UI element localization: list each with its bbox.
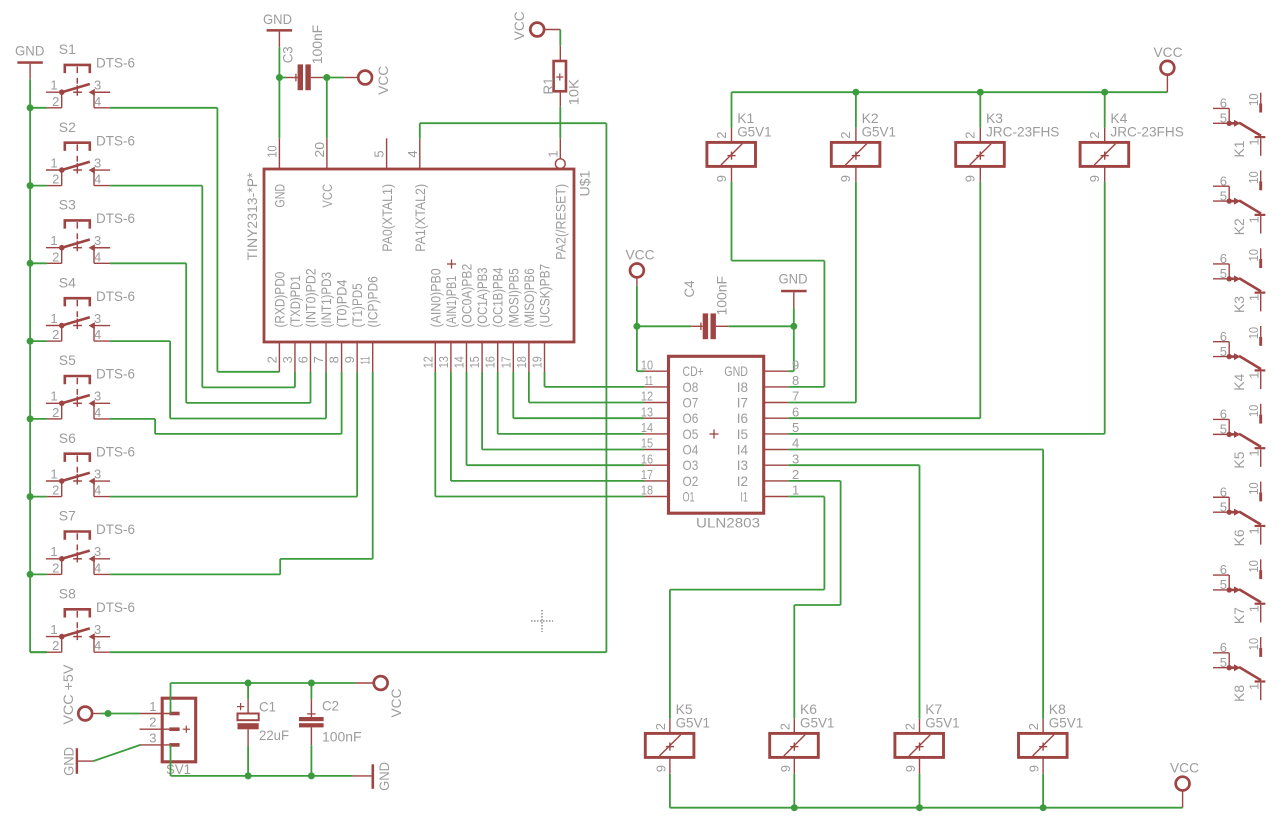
relay coil K2 (G5V1)	[831, 128, 880, 182]
wire ULN I2 to K6	[788, 481, 840, 719]
svg-text:2: 2	[903, 723, 918, 730]
ULN2803 right pin 5 I5	[737, 420, 800, 442]
ULN2803 right pin 9 GND	[724, 357, 799, 379]
svg-text:O3: O3	[683, 457, 699, 473]
wire GND to C3 node	[278, 47, 280, 77]
svg-text:VCC: VCC	[375, 66, 391, 95]
label DTS-6 value S1	[96, 55, 135, 71]
svg-text:DTS-6: DTS-6	[96, 132, 135, 148]
svg-text:9: 9	[714, 175, 729, 182]
junction bus-K7	[916, 804, 923, 811]
svg-text:GND: GND	[15, 43, 44, 59]
label DTS-6 value S2	[96, 132, 135, 148]
svg-text:1: 1	[545, 150, 560, 157]
switch S5 (DTS-6)	[46, 376, 110, 419]
label S6 refdes	[59, 430, 76, 446]
ULN2803 left pin 10 CD+	[641, 357, 704, 379]
svg-text:3: 3	[94, 155, 101, 170]
svg-text:G5V1: G5V1	[862, 124, 897, 140]
svg-text:ULN2803: ULN2803	[696, 515, 760, 531]
label K1 refdes (contact)	[1231, 140, 1247, 157]
wire C3 to VCC node	[322, 77, 344, 79]
label S8 refdes	[59, 585, 76, 601]
svg-text:8: 8	[792, 373, 799, 388]
ground symbol GND (switch rail)	[15, 43, 44, 80]
label K7 refdes	[925, 701, 942, 717]
capacitor C2 100nF	[299, 683, 324, 776]
svg-text:10: 10	[1246, 482, 1261, 495]
wire U$1 pin14 to ULN O3	[467, 372, 645, 465]
wire ULN I1 to K5	[670, 497, 825, 719]
svg-text:3: 3	[94, 544, 101, 559]
pin numbers S7	[50, 544, 101, 575]
label JRC-23FHS value K4	[1110, 124, 1183, 140]
junction C1 bottom	[245, 772, 252, 779]
pin numbers SV1	[149, 699, 156, 745]
wire rail to S3 pin2	[30, 262, 47, 264]
wire VCC node to U$1 pin20 VCC	[326, 78, 328, 139]
svg-text:C4: C4	[681, 280, 697, 297]
pin numbers S5	[50, 389, 101, 420]
relay coil K4 (JRC-23FHS)	[1080, 128, 1129, 182]
label K5 refdes	[676, 701, 693, 717]
capacitor C1 22uF (polarized)	[237, 683, 259, 776]
relay coil K8 (G5V1)	[1019, 719, 1068, 774]
svg-text:(OC1A)PB3: (OC1A)PB3	[474, 267, 490, 327]
ULN2803 left pin 12 O7	[641, 389, 699, 411]
svg-text:TINY2313-*P*: TINY2313-*P*	[244, 172, 260, 261]
svg-text:2: 2	[52, 483, 59, 498]
pin numbers K4 coil	[1087, 131, 1102, 182]
svg-text:14: 14	[641, 420, 653, 435]
junction rail-S3	[27, 260, 34, 267]
ground symbol GND (bottom middle)	[353, 762, 392, 791]
svg-text:2: 2	[963, 131, 978, 138]
svg-text:9: 9	[1087, 175, 1102, 182]
relay contact K7 (changeover)	[1213, 559, 1265, 622]
ULN2803 right pin 4 I4	[737, 436, 800, 458]
pin numbers S3	[50, 233, 101, 264]
svg-text:14: 14	[452, 356, 467, 368]
svg-text:3: 3	[280, 356, 295, 363]
svg-text:11: 11	[645, 373, 653, 388]
svg-text:VCC: VCC	[1170, 759, 1199, 775]
svg-text:2: 2	[52, 94, 59, 109]
svg-text:I7: I7	[737, 394, 748, 410]
pin numbers S6	[50, 466, 101, 497]
svg-text:6: 6	[296, 356, 311, 363]
svg-text:1: 1	[50, 544, 57, 559]
wire S7 to U$1 pin11	[110, 372, 373, 574]
svg-text:1: 1	[50, 155, 57, 170]
ULN2803 right pin 2 I2	[737, 467, 800, 489]
label K6 refdes	[800, 701, 817, 717]
svg-text:(OC0A)PB2: (OC0A)PB2	[459, 264, 475, 328]
resistor R1	[554, 46, 566, 107]
label K3 refdes (contact)	[1231, 296, 1247, 313]
svg-text:O7: O7	[683, 394, 699, 410]
pin numbers contact K8	[1220, 638, 1262, 690]
label DTS-6 value S6	[96, 443, 135, 459]
wire ULN I3 to K7	[788, 465, 919, 719]
svg-text:(MOSI)PB5: (MOSI)PB5	[505, 268, 521, 327]
wire U$1 pin12 to ULN O1	[435, 372, 644, 497]
pin numbers contact K4	[1220, 327, 1262, 379]
svg-text:DTS-6: DTS-6	[96, 521, 135, 537]
svg-text:I1: I1	[740, 488, 748, 504]
svg-text:K6: K6	[1231, 529, 1247, 546]
label DTS-6 value S7	[96, 521, 135, 537]
pin numbers contact K6	[1220, 482, 1262, 534]
svg-text:2: 2	[52, 327, 59, 342]
svg-text:(INT1)PD3: (INT1)PD3	[318, 272, 334, 328]
IC U$1 TINY2313 body	[264, 169, 574, 342]
label R1 refdes	[540, 77, 556, 94]
label JRC-23FHS value K3	[986, 124, 1059, 140]
wire R1 to U$1 pin1 (/RESET)	[559, 107, 561, 139]
label DTS-6 value S8	[96, 599, 135, 615]
ULN2803 origin cross	[710, 430, 719, 439]
label 10K value	[565, 79, 581, 106]
svg-text:I5: I5	[737, 426, 748, 442]
pin numbers contact K2	[1220, 171, 1262, 223]
svg-text:VCC: VCC	[388, 689, 404, 718]
junction rail-S1	[27, 104, 34, 111]
svg-text:9: 9	[963, 175, 978, 182]
svg-text:5: 5	[372, 150, 387, 157]
label S4 refdes	[59, 274, 76, 290]
svg-text:19: 19	[530, 356, 545, 368]
wire U$1 pin17 to ULN O6	[513, 372, 644, 418]
ULN2803 left pin 13 O6	[641, 404, 699, 426]
svg-text:100nF: 100nF	[309, 25, 325, 65]
ULN2803 right pin 8 I8	[737, 373, 800, 395]
junction C3 left	[276, 74, 283, 81]
svg-text:1: 1	[50, 622, 57, 637]
label S2 refdes	[59, 119, 76, 135]
svg-text:1: 1	[1246, 216, 1261, 223]
svg-text:2: 2	[1026, 723, 1041, 730]
wire GND node to ULN pin9 GND	[788, 326, 794, 371]
wire rail to S2 pin2	[30, 185, 47, 187]
wire C4 to GND node	[729, 308, 794, 326]
wire S3 to U$1 pin6	[110, 263, 310, 403]
label S7 refdes	[59, 508, 76, 524]
svg-text:15: 15	[467, 356, 482, 368]
svg-text:1: 1	[50, 466, 57, 481]
svg-text:4: 4	[94, 560, 101, 575]
svg-text:1: 1	[1246, 372, 1261, 379]
svg-text:K2: K2	[1231, 218, 1247, 235]
relay contact K6 (changeover)	[1213, 482, 1265, 545]
svg-text:5: 5	[1220, 111, 1227, 126]
U$1 top pin names	[272, 184, 569, 260]
wire rail to S5 pin2	[30, 418, 47, 420]
svg-text:4: 4	[94, 94, 101, 109]
U$1 top pin 20	[326, 138, 328, 169]
ground symbol GND (C3)	[263, 11, 292, 47]
svg-text:1: 1	[50, 389, 57, 404]
wire GND to SV1 pin3 (diagonal)	[93, 745, 140, 761]
pin numbers S2	[50, 155, 101, 186]
pin numbers K5 coil	[653, 723, 669, 772]
svg-text:10: 10	[1246, 94, 1261, 107]
svg-text:100nF: 100nF	[322, 729, 362, 745]
relay coil K3 (JRC-23FHS)	[956, 128, 1005, 182]
svg-text:U$1: U$1	[576, 170, 592, 196]
label DTS-6 value S5	[96, 366, 135, 382]
svg-text:S4: S4	[59, 274, 76, 290]
U$1 bottom pin 11 (ICP)PD6	[358, 276, 381, 372]
svg-text:O8: O8	[683, 379, 699, 395]
pin numbers K7 coil	[903, 723, 919, 772]
cursor crosshair	[531, 610, 553, 632]
svg-text:4: 4	[94, 638, 101, 653]
relay coil K1 (G5V1)	[707, 128, 756, 182]
svg-text:8: 8	[327, 356, 342, 363]
pin numbers K1 coil	[714, 131, 729, 182]
label DTS-6 value S3	[96, 210, 135, 226]
svg-text:PA0(XTAL1): PA0(XTAL1)	[379, 184, 395, 252]
svg-text:10K: 10K	[565, 79, 581, 106]
wire VCC to R1	[559, 30, 561, 46]
svg-text:K8: K8	[1231, 685, 1247, 702]
junction rail-S7	[27, 571, 34, 578]
svg-text:GND: GND	[272, 184, 288, 208]
svg-text:100nF: 100nF	[714, 276, 730, 316]
svg-text:1: 1	[1246, 527, 1261, 534]
label SV1 refdes	[166, 761, 191, 777]
U$1 bottom pin 18 (MISO)PB6	[514, 268, 537, 372]
svg-text:(RXD)PD0: (RXD)PD0	[271, 272, 287, 328]
svg-text:2: 2	[52, 405, 59, 420]
IC ULN2803 body	[669, 356, 764, 513]
svg-text:G5V1: G5V1	[925, 715, 960, 731]
label U$1 refdes	[576, 170, 592, 196]
svg-text:1: 1	[1246, 449, 1261, 456]
junction C2 bottom	[308, 772, 315, 779]
pin numbers K8 coil	[1026, 723, 1042, 772]
svg-text:22uF: 22uF	[259, 727, 289, 743]
U$1 bottom pin 12 (AIN0)PB0	[420, 268, 443, 372]
svg-text:13: 13	[641, 404, 653, 419]
svg-text:9: 9	[1027, 765, 1042, 772]
svg-text:6: 6	[1220, 562, 1227, 577]
label K2 refdes (contact)	[1231, 218, 1247, 235]
wire S1 to U$1 pin2	[110, 108, 279, 372]
junction bus-K8	[1040, 804, 1047, 811]
power VCC symbol (C3)	[344, 66, 391, 95]
svg-text:18: 18	[641, 483, 653, 498]
svg-text:5: 5	[1220, 655, 1227, 670]
junction bus-K2	[852, 89, 859, 96]
svg-text:3: 3	[94, 622, 101, 637]
svg-text:4: 4	[94, 483, 101, 498]
wire C3 node to U$1 pin10 GND	[278, 78, 280, 139]
svg-text:S5: S5	[59, 352, 76, 368]
svg-text:2: 2	[714, 131, 729, 138]
U$1 bottom pin 2 (RXD)PD0	[264, 272, 287, 372]
svg-text:3: 3	[94, 389, 101, 404]
svg-text:9: 9	[792, 357, 799, 372]
svg-text:I6: I6	[737, 410, 748, 426]
relay coil K7 (G5V1)	[895, 719, 944, 774]
svg-text:11: 11	[358, 356, 373, 364]
wire VCC node to ULN pin10 CD+	[637, 326, 644, 371]
svg-text:G5V1: G5V1	[800, 715, 835, 731]
svg-text:2: 2	[653, 723, 668, 730]
wire S4 to U$1 pin7	[110, 341, 326, 418]
label 22uF value	[259, 727, 289, 743]
svg-text:4: 4	[94, 172, 101, 187]
svg-text:K7: K7	[1231, 607, 1247, 624]
svg-text:O5: O5	[683, 426, 699, 442]
U$1 top pin 1 with inversion circle	[555, 138, 565, 168]
wire K4 to ULN I5	[788, 182, 1104, 434]
svg-text:2: 2	[52, 560, 59, 575]
svg-text:6: 6	[1220, 251, 1227, 266]
svg-text:9: 9	[778, 765, 793, 772]
wire ULN I4 to K8	[788, 450, 1043, 719]
svg-text:S1: S1	[59, 41, 76, 57]
junction rail-S2	[27, 182, 34, 189]
svg-text:DTS-6: DTS-6	[96, 288, 135, 304]
ULN2803 left pin 15 O4	[641, 436, 699, 458]
svg-text:4: 4	[94, 327, 101, 342]
svg-text:12: 12	[420, 356, 435, 368]
svg-text:3: 3	[94, 78, 101, 93]
svg-text:2: 2	[149, 715, 156, 730]
svg-text:1: 1	[50, 233, 57, 248]
label S3 refdes	[59, 197, 76, 213]
label K4 refdes	[1110, 110, 1127, 126]
svg-text:3: 3	[149, 730, 156, 745]
svg-text:R1: R1	[540, 77, 556, 94]
svg-text:DTS-6: DTS-6	[96, 210, 135, 226]
svg-text:17: 17	[641, 467, 653, 482]
svg-text:18: 18	[514, 356, 529, 368]
svg-text:6: 6	[1220, 484, 1227, 499]
svg-text:3: 3	[94, 466, 101, 481]
svg-text:10: 10	[1246, 405, 1261, 418]
svg-text:K5: K5	[1231, 451, 1247, 468]
power VCC symbol (R1 top)	[511, 11, 561, 40]
svg-text:5: 5	[1220, 266, 1227, 281]
power VCC +5V symbol	[60, 664, 100, 725]
svg-text:7: 7	[792, 389, 799, 404]
svg-text:JRC-23FHS: JRC-23FHS	[1110, 124, 1183, 140]
svg-text:16: 16	[483, 356, 498, 368]
junction bus-K3	[977, 89, 984, 96]
junction C4 right	[790, 323, 797, 330]
svg-text:3: 3	[94, 311, 101, 326]
svg-text:10: 10	[1246, 638, 1261, 651]
label K2 refdes	[862, 110, 879, 126]
wire VCC+5V to SV1 pin1	[100, 713, 139, 715]
junction C4 left	[633, 323, 640, 330]
label K1 refdes	[737, 110, 754, 126]
svg-text:2: 2	[52, 638, 59, 653]
svg-text:C3: C3	[279, 46, 295, 63]
svg-text:4: 4	[94, 249, 101, 264]
svg-text:16: 16	[641, 451, 653, 466]
svg-text:G5V1: G5V1	[1049, 715, 1084, 731]
svg-text:5: 5	[1220, 422, 1227, 437]
svg-text:9: 9	[903, 765, 918, 772]
relay contact K4 (changeover)	[1213, 326, 1265, 389]
switch S8 (DTS-6)	[46, 609, 110, 652]
U$1 bottom pin 13 (AIN1)PB1	[436, 276, 459, 372]
svg-text:(ICP)PD6: (ICP)PD6	[365, 276, 381, 327]
pin numbers contact K3	[1220, 249, 1262, 301]
svg-text:O1: O1	[683, 488, 695, 504]
ULN2803 right pin 6 I6	[737, 404, 800, 426]
svg-text:(INT0)PD2: (INT0)PD2	[303, 268, 319, 327]
svg-text:(UCSK)PB7: (UCSK)PB7	[537, 264, 553, 328]
U$1 bottom pin 15 (OC1A)PB3	[467, 267, 490, 372]
svg-text:S7: S7	[59, 508, 76, 524]
junction rail-S6	[27, 493, 34, 500]
svg-text:15: 15	[641, 436, 653, 451]
svg-text:VCC: VCC	[511, 11, 527, 40]
svg-text:4: 4	[405, 150, 420, 157]
wire S5 to U$1 pin8	[110, 372, 342, 434]
relay contact K8 (changeover)	[1213, 637, 1265, 700]
label C4 refdes	[681, 280, 697, 297]
svg-text:10: 10	[1246, 327, 1261, 340]
svg-text:7: 7	[311, 356, 326, 363]
label G5V1 value K5	[676, 715, 711, 731]
pin numbers contact K7	[1220, 560, 1262, 612]
svg-text:(OC1B)PB4: (OC1B)PB4	[490, 267, 506, 327]
label ULN2803 value	[696, 515, 760, 531]
power VCC symbol (top right)	[1154, 44, 1183, 92]
relay coil K5 (G5V1)	[645, 719, 694, 774]
svg-text:DTS-6: DTS-6	[96, 443, 135, 459]
svg-text:S6: S6	[59, 430, 76, 446]
label DTS-6 value S4	[96, 288, 135, 304]
power VCC symbol (bottom left)	[355, 676, 404, 717]
wire rail to S4 pin2	[30, 340, 47, 342]
pin numbers contact K5	[1220, 405, 1262, 457]
ULN2803 left pin 11 O8	[644, 373, 698, 395]
capacitor C4 100nF	[637, 313, 729, 339]
label TINY2313-*P* value	[244, 172, 260, 261]
label K4 refdes (contact)	[1231, 374, 1247, 391]
switch S1 (DTS-6)	[46, 65, 110, 108]
svg-text:2: 2	[52, 172, 59, 187]
svg-text:(T0)PD4: (T0)PD4	[334, 279, 350, 327]
relay contact K2 (changeover)	[1213, 170, 1265, 233]
pin numbers contact K1	[1220, 94, 1262, 146]
svg-text:17: 17	[498, 356, 513, 368]
svg-text:DTS-6: DTS-6	[96, 599, 135, 615]
switch S6 (DTS-6)	[46, 454, 110, 497]
ULN2803 left pin 16 O3	[641, 451, 699, 473]
junction rail-S5	[27, 415, 34, 422]
ground symbol GND (C4)	[779, 270, 808, 308]
pin numbers S4	[50, 311, 101, 342]
wire U$1 pin16 to ULN O5	[498, 372, 644, 434]
U$1 bottom pin 17 (MOSI)PB5	[498, 268, 521, 372]
U$1 bottom pin 6 (INT0)PD2	[296, 268, 319, 372]
label K5 refdes (contact)	[1231, 451, 1247, 468]
U$1 top pin 5 (XTAL1, unconnected)	[386, 138, 388, 169]
U$1 top pin numbers	[264, 142, 560, 158]
label C3 refdes	[279, 46, 295, 63]
svg-text:5: 5	[1220, 188, 1227, 203]
svg-text:2: 2	[792, 467, 799, 482]
